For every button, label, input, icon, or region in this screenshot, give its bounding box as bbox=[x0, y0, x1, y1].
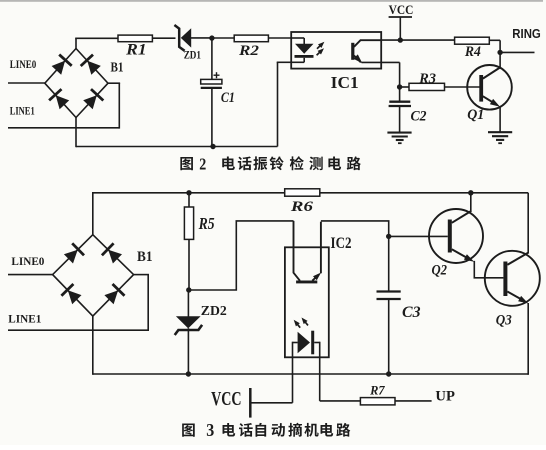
svg-text:R3: R3 bbox=[418, 71, 436, 87]
capacitor C3 top plate bbox=[377, 290, 401, 292]
node C junction dot bbox=[386, 234, 391, 239]
transistor Q3 circle bbox=[485, 251, 540, 306]
wire Q3 emitter to bottom rail bbox=[527, 303, 529, 375]
bridge rectifier B1a outline bbox=[45, 49, 108, 118]
IC1 light arrow 1 bbox=[317, 44, 322, 49]
svg-text:Q3: Q3 bbox=[496, 313, 512, 329]
resistor R4 bbox=[455, 37, 490, 44]
svg-text:R1: R1 bbox=[125, 42, 147, 59]
transistor Q3 emitter bbox=[507, 292, 524, 302]
capacitor C1 bottom plate bbox=[201, 87, 222, 89]
wire bridge- down (fig2) bbox=[75, 118, 77, 148]
wire rail to Q3 collector bbox=[527, 193, 529, 253]
ground (Q1) bbox=[488, 131, 512, 133]
wire junction to R3 bbox=[400, 86, 409, 88]
zener diode ZD2 bbox=[176, 316, 201, 328]
transistor Q1 circle bbox=[467, 65, 512, 110]
IC2 LED cathode wire bbox=[314, 342, 320, 344]
wire node B to ZD2 bbox=[187, 290, 189, 317]
svg-text:ZD2: ZD2 bbox=[201, 304, 227, 319]
svg-text:R7: R7 bbox=[369, 383, 385, 398]
IC2 phototransistor emitter slant bbox=[312, 275, 318, 281]
IC1 phototransistor base bar bbox=[351, 43, 354, 60]
transistor Q2 collector bbox=[452, 211, 472, 223]
bridge B1b diode (upper-left) bbox=[64, 250, 78, 264]
transistor Q1 base bar bbox=[479, 75, 483, 102]
wire node A down to C1 bbox=[211, 38, 213, 79]
bridge B1a diode (lower-right) bbox=[83, 95, 97, 109]
IC2 LED anode wire bbox=[293, 342, 298, 344]
svg-text:LINE1: LINE1 bbox=[8, 311, 41, 325]
capacitor C1 plus sign bbox=[214, 74, 220, 76]
IC1 light arrow 2 bbox=[317, 50, 322, 55]
resistor R1 bbox=[118, 35, 152, 42]
opto-isolator IC1 box bbox=[291, 32, 381, 69]
wire LINE1 (fig2) bbox=[8, 127, 119, 129]
resistor R6 bbox=[285, 189, 320, 196]
wire LINE1 (fig3) bbox=[8, 329, 148, 331]
bridge B1b diode (upper-right) bbox=[108, 250, 122, 264]
wire ZD1 to node A bbox=[191, 37, 213, 39]
svg-text:ZD1: ZD1 bbox=[184, 50, 201, 62]
wire bottom rail (fig2) bbox=[76, 146, 278, 148]
svg-text:C2: C2 bbox=[411, 109, 427, 125]
IC2 phototransistor base bar bbox=[296, 281, 317, 284]
IC1 LED cathode bar bbox=[295, 55, 314, 58]
svg-text:UP: UP bbox=[435, 389, 455, 405]
svg-text:B1: B1 bbox=[111, 60, 124, 75]
wire bridge+ up (fig3) bbox=[92, 192, 94, 235]
transistor Q3 base bar bbox=[503, 262, 507, 297]
bridge B1b diode (lower-right) bbox=[104, 290, 118, 304]
wire LINE0 (fig2) bbox=[8, 82, 45, 84]
svg-text:RING: RING bbox=[512, 27, 541, 41]
IC2 light arrow 1 bbox=[296, 322, 301, 328]
IC1 LED triangle bbox=[295, 44, 314, 54]
transistor Q2 emitter bbox=[452, 249, 471, 259]
IC2 phototransistor collector bbox=[294, 221, 300, 281]
IC1 phototransistor collector bbox=[354, 40, 381, 47]
wire R7 to UP bbox=[395, 400, 432, 402]
node RING junction dot bbox=[497, 50, 502, 55]
wire C2 to ground bbox=[399, 106, 401, 132]
opto-isolator IC2 box bbox=[285, 247, 329, 357]
svg-text:LINE0: LINE0 bbox=[11, 254, 44, 268]
capacitor C1 top plate bbox=[201, 79, 222, 84]
svg-text:C3: C3 bbox=[402, 304, 421, 321]
wire VCC to IC2 LED anode bbox=[250, 402, 292, 404]
resistor R7 bbox=[360, 398, 395, 405]
junction dot VCC/collector bbox=[398, 37, 403, 42]
wire LINE1 to bridge right vertex (fig3) bbox=[147, 275, 149, 331]
wire IC2 cathode to R7 bbox=[320, 400, 361, 402]
wire node A to R2 bbox=[212, 37, 234, 39]
ground (C2) bbox=[387, 132, 411, 134]
capacitor C2 top plate bbox=[389, 101, 410, 103]
IC2 LED triangle bbox=[298, 332, 310, 354]
IC1 LED anode wire bbox=[291, 37, 304, 39]
svg-text:2: 2 bbox=[199, 155, 206, 174]
transistor Q1 emitter bbox=[483, 96, 497, 104]
wire LINE1 to bridge right vertex (fig2) bbox=[118, 83, 120, 129]
svg-text:LINE1: LINE1 bbox=[10, 104, 35, 118]
svg-text:IC2: IC2 bbox=[331, 235, 352, 252]
transistor Q2 base bar bbox=[448, 220, 452, 253]
IC1 phototransistor emitter bbox=[354, 56, 361, 63]
IC1 LED cathode wire bbox=[303, 58, 305, 63]
svg-text:R6: R6 bbox=[290, 199, 314, 215]
wire RING bbox=[500, 51, 534, 53]
wire rail to Q2 collector bbox=[470, 193, 472, 212]
bridge B1a diode (lower-left) bbox=[56, 95, 69, 109]
wire Q2 emitter to Q3 base bbox=[474, 261, 503, 278]
wire IC1 collector to R4 bbox=[381, 39, 455, 41]
svg-text:R5: R5 bbox=[198, 214, 215, 233]
capacitor C2 bottom plate bbox=[389, 105, 411, 107]
capacitor C3 bottom plate bbox=[377, 298, 401, 300]
power VCC (fig3) terminal bar bbox=[249, 388, 252, 418]
svg-text:B1: B1 bbox=[137, 249, 153, 265]
IC2 phototransistor emitter wire bbox=[320, 222, 322, 274]
wire top rail (fig3) bbox=[93, 192, 285, 194]
svg-text:C1: C1 bbox=[221, 90, 235, 106]
IC2 LED cathode bar bbox=[311, 331, 314, 355]
junction dot ZD2 bottom rail bbox=[186, 371, 191, 376]
wire C1 to bottom rail bbox=[211, 89, 213, 147]
wire rail to R5 bbox=[188, 193, 190, 207]
resistor R2 bbox=[234, 35, 268, 42]
wire Q1 emitter to ground bbox=[499, 107, 501, 133]
wire R5 to node B bbox=[188, 239, 190, 290]
power VCC (fig2) terminal bar bbox=[389, 16, 412, 18]
wire R1 to ZD1 bbox=[152, 37, 175, 39]
junction dot R5 top rail bbox=[186, 190, 191, 195]
wire ZD2 to bottom rail bbox=[187, 328, 189, 374]
resistor R5 bbox=[184, 207, 193, 239]
svg-text:VCC: VCC bbox=[389, 2, 414, 17]
IC2 light arrow 2 bbox=[304, 320, 309, 326]
wire LINE0 (fig3) bbox=[8, 274, 53, 276]
wire VCC down bbox=[399, 17, 401, 40]
bridge B1b diode (lower-left) bbox=[68, 290, 82, 304]
node A junction dot bbox=[209, 35, 214, 40]
wire RING node to Q1 collector bbox=[499, 52, 501, 67]
wire R3 to Q1 base bbox=[445, 86, 480, 88]
wire IC1 emitter to C2 bbox=[362, 61, 400, 63]
svg-text:Q2: Q2 bbox=[432, 263, 448, 279]
wire bridge+ to R1 bbox=[75, 38, 77, 49]
junction dot Q2 collector rail bbox=[468, 190, 473, 195]
node B junction dot bbox=[186, 287, 191, 292]
wire R4 to RING node bbox=[489, 39, 500, 41]
wire bridge- down (fig3) bbox=[92, 316, 94, 375]
transistor Q2 circle bbox=[429, 209, 483, 263]
svg-text:R2: R2 bbox=[238, 43, 260, 59]
zener diode ZD1 bbox=[181, 28, 191, 47]
wire bottom rail (fig3) bbox=[93, 373, 529, 375]
junction dot C1/bottom rail bbox=[210, 144, 215, 149]
scan edge line top bbox=[0, 0, 543, 2]
transistor Q3 collector bbox=[507, 252, 528, 264]
wire R2 to IC1 pin1 bbox=[268, 37, 292, 39]
svg-text:Q1: Q1 bbox=[467, 107, 484, 123]
bridge B1a diode (upper-left) bbox=[52, 61, 66, 75]
svg-text:VCC: VCC bbox=[211, 388, 242, 410]
wire C3 to bottom rail bbox=[388, 299, 390, 374]
resistor R3 bbox=[409, 83, 445, 90]
transistor Q1 collector bbox=[483, 67, 501, 79]
wire node B loop to IC2 collector bbox=[189, 221, 294, 290]
wire node C to C3 bbox=[388, 236, 390, 291]
svg-text:3: 3 bbox=[206, 420, 214, 440]
bridge B1a diode (upper-right) bbox=[87, 61, 101, 75]
junction dot C3 bottom rail bbox=[386, 371, 391, 376]
caption figure 3: 图3 电话自动摘机电路 bbox=[182, 420, 350, 440]
junction dot C2/R3 bbox=[397, 84, 402, 89]
svg-text:IC1: IC1 bbox=[331, 73, 359, 92]
bridge rectifier B1b outline bbox=[53, 235, 134, 316]
wire node C to Q2 base bbox=[389, 235, 448, 237]
wire IC2 emitter to node C bbox=[321, 221, 389, 237]
caption figure 2: 图2 电话振铃检测电路 bbox=[180, 155, 361, 174]
wire IC1 pin2 to bottom rail bbox=[277, 62, 279, 146]
svg-text:R4: R4 bbox=[464, 44, 481, 60]
svg-text:LINE0: LINE0 bbox=[10, 57, 37, 71]
